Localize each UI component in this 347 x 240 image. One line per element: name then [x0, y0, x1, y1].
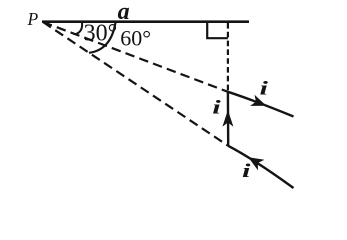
dashed ray at 60 deg from P: [43, 22, 228, 146]
surface line a: [42, 20, 249, 23]
svg-text:i: i: [212, 97, 220, 118]
dashed ray at 30 deg from P: [43, 22, 228, 92]
solid ray continuation of 30 deg line: [228, 92, 294, 117]
solid ray lower right: [228, 146, 293, 188]
arrowhead on upper right ray: [250, 95, 266, 106]
arrowhead up on vertical segment: [222, 110, 233, 127]
svg-text:a: a: [118, 0, 130, 25]
svg-text:i: i: [242, 161, 250, 182]
arrowhead on lower right ray: [248, 157, 264, 170]
30 degree angle arc: [74, 23, 83, 35]
svg-text:P: P: [27, 9, 39, 29]
svg-text:60°: 60°: [120, 25, 151, 50]
vertical dashed perpendicular: [227, 23, 229, 92]
right angle marker: [207, 23, 228, 38]
vertical solid segment: [227, 92, 230, 146]
svg-text:i: i: [260, 78, 268, 99]
60 degree angle arc: [89, 23, 116, 53]
